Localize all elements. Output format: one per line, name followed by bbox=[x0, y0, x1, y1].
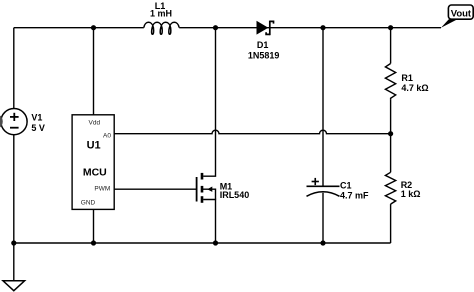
svg-text:V1: V1 bbox=[31, 113, 42, 123]
svg-text:1 mH: 1 mH bbox=[150, 8, 172, 18]
svg-text:5 V: 5 V bbox=[31, 123, 45, 133]
svg-text:1 kΩ: 1 kΩ bbox=[401, 189, 421, 199]
svg-text:1N5819: 1N5819 bbox=[248, 50, 280, 60]
svg-text:Vout: Vout bbox=[451, 8, 472, 19]
svg-text:4.7 mF: 4.7 mF bbox=[340, 191, 369, 201]
svg-text:PWM: PWM bbox=[94, 186, 110, 193]
svg-text:U1: U1 bbox=[87, 140, 101, 152]
svg-text:D1: D1 bbox=[257, 40, 269, 50]
svg-text:4.7 kΩ: 4.7 kΩ bbox=[401, 83, 428, 93]
svg-text:R1: R1 bbox=[401, 73, 413, 83]
svg-text:Vdd: Vdd bbox=[89, 119, 101, 126]
svg-text:A0: A0 bbox=[103, 133, 111, 140]
svg-text:GND: GND bbox=[81, 200, 96, 207]
svg-text:C1: C1 bbox=[340, 181, 352, 191]
svg-text:IRL540: IRL540 bbox=[220, 190, 250, 200]
svg-text:MCU: MCU bbox=[83, 167, 107, 179]
